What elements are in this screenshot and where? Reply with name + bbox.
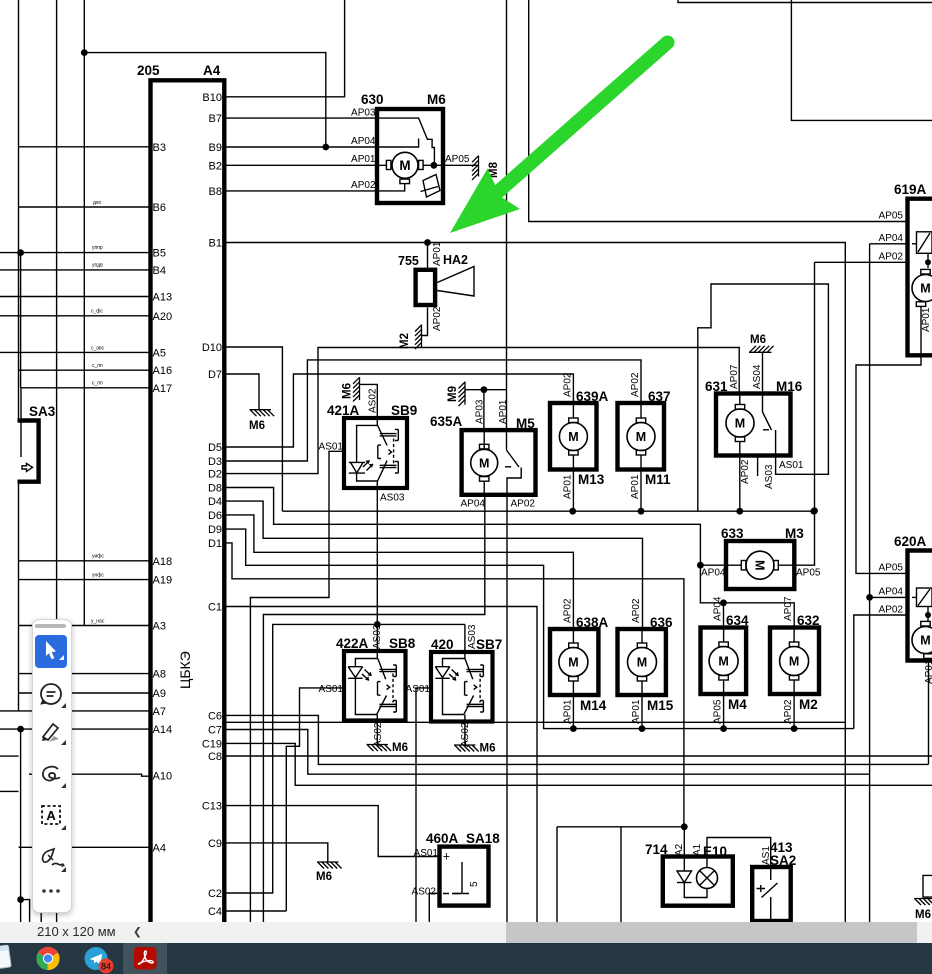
svg-text:AP01: AP01 <box>921 307 932 332</box>
svg-text:AP04: AP04 <box>879 233 904 244</box>
wire M2 AP02 <box>793 694 795 729</box>
svg-text:D3: D3 <box>208 456 222 468</box>
heater unit 620A <box>908 548 932 662</box>
svg-text:AP07: AP07 <box>783 596 794 621</box>
switch inside M5 <box>507 450 520 467</box>
ground M6 (C9) <box>317 862 342 869</box>
node 620A AP04 <box>866 594 873 601</box>
svg-text:AS04: AS04 <box>752 364 763 389</box>
wire D9 to lower bus <box>224 529 854 729</box>
highlight tool <box>42 724 59 742</box>
wire 619A motor out to 620A AP05 <box>856 306 921 573</box>
svg-text:AP02: AP02 <box>563 598 574 623</box>
node A14 <box>17 726 24 733</box>
svg-text:C7: C7 <box>208 725 222 737</box>
svg-text:A4: A4 <box>203 63 221 78</box>
wire SA3 bottom down <box>18 484 20 711</box>
wire D7 to ground <box>224 374 259 410</box>
switch inside M16 <box>763 394 772 431</box>
svg-text:A2: A2 <box>674 843 685 856</box>
draw tool <box>42 766 59 780</box>
wire M16 AP02 to bus1 <box>739 456 741 512</box>
motor M14 (638A) <box>550 629 598 695</box>
svg-text:205: 205 <box>137 63 160 78</box>
rocker contacts inside SB9 <box>376 418 378 488</box>
svg-text:M6: M6 <box>392 742 408 754</box>
chrome icon <box>36 947 59 970</box>
node AP05 <box>431 162 438 169</box>
svg-text:AS02: AS02 <box>373 722 384 747</box>
telegram icon <box>85 947 108 970</box>
motor unit M16 (631) wiper motor <box>716 394 791 456</box>
wire B6 <box>19 206 151 208</box>
svg-text:633: 633 <box>721 526 744 541</box>
svg-text:с_пп: с_пп <box>92 363 103 369</box>
svg-text:AP02: AP02 <box>631 598 642 623</box>
svg-text:5: 5 <box>469 881 480 887</box>
wire 620A AP01 to C6 bus <box>928 661 930 765</box>
svg-text:D5: D5 <box>208 442 222 454</box>
svg-text:M14: M14 <box>580 698 607 713</box>
svg-text:HA2: HA2 <box>443 253 468 267</box>
svg-text:C13: C13 <box>202 801 222 813</box>
wire C19 <box>224 743 932 785</box>
wire M14 AP01 <box>572 695 574 729</box>
wire stub left 791 <box>0 790 19 792</box>
wire top right corner <box>678 0 932 3</box>
more dots <box>42 889 60 893</box>
svg-text:C6: C6 <box>208 710 222 722</box>
svg-text:упдв: упдв <box>92 263 103 269</box>
svg-text:M5: M5 <box>516 416 535 431</box>
wire A5 <box>0 351 151 353</box>
wire 619A AP02 <box>815 261 908 263</box>
svg-text:A7: A7 <box>153 706 166 718</box>
svg-text:M6: M6 <box>316 871 332 883</box>
svg-text:AP02: AP02 <box>879 252 904 263</box>
svg-text:AS01: AS01 <box>319 684 344 695</box>
wire SB8 AS03 <box>376 624 378 651</box>
svg-text:M2: M2 <box>399 333 411 349</box>
wire M16 AS03 stub <box>757 456 759 477</box>
svg-text:B2: B2 <box>209 160 222 172</box>
wire A8 <box>19 673 151 675</box>
wire A9 <box>19 692 151 694</box>
svg-text:AP04: AP04 <box>713 596 724 621</box>
ground M6 (above M16) <box>749 346 774 353</box>
wire feed 619A AP05 <box>529 0 908 222</box>
wire AP02 inside 630 <box>377 184 405 191</box>
wire SB9 AS02 <box>360 384 378 418</box>
svg-text:AS03: AS03 <box>764 464 775 489</box>
svg-text:B7: B7 <box>209 113 222 125</box>
svg-text:AS01: AS01 <box>406 684 431 695</box>
switch SA3 <box>18 421 39 482</box>
LED inside SB7 <box>435 667 449 679</box>
svg-text:M13: M13 <box>578 472 605 487</box>
svg-text:D9: D9 <box>208 524 222 536</box>
svg-text:B1: B1 <box>209 238 222 250</box>
node M15 AP01 <box>639 725 646 732</box>
wire 619A AP04 <box>870 243 908 245</box>
svg-text:M4: M4 <box>728 697 747 712</box>
wire C1 <box>224 607 537 923</box>
left bus wire x=84.3 <box>83 0 85 626</box>
wire M5 AP03 <box>483 390 485 430</box>
svg-text:M6: M6 <box>480 743 496 755</box>
svg-text:M6: M6 <box>342 383 354 399</box>
svg-text:C2: C2 <box>208 888 222 900</box>
wire M4 AP05 <box>723 694 725 729</box>
wire SB9 AS03 down <box>376 488 378 624</box>
LED inside SB9 <box>349 462 365 473</box>
wire M3 AP04 <box>700 564 726 566</box>
svg-text:632: 632 <box>797 613 820 628</box>
svg-text:C19: C19 <box>202 738 222 750</box>
svg-text:B3: B3 <box>153 142 166 154</box>
switch SB8 (422A) <box>344 651 406 721</box>
svg-text:AP05: AP05 <box>713 699 724 724</box>
wire A16 <box>19 369 151 371</box>
wire D8 to bus2 <box>224 488 700 566</box>
svg-text:SA18: SA18 <box>466 831 500 846</box>
svg-text:M: M <box>920 282 930 296</box>
left bus wire x=18.5 <box>18 0 20 421</box>
svg-text:D8: D8 <box>208 483 222 495</box>
wire SB9 AS01 <box>250 451 344 922</box>
node M9 wire <box>481 386 488 393</box>
wire C9 to ground <box>224 843 327 862</box>
wire M13 AP01 to bus1 <box>572 470 574 512</box>
svg-text:M: M <box>568 430 578 444</box>
svg-text:AP01: AP01 <box>563 474 574 499</box>
wire A4 <box>19 846 151 848</box>
svg-text:дхо: дхо <box>93 200 101 206</box>
svg-text:M6: M6 <box>750 334 766 346</box>
wire A13 <box>0 296 151 298</box>
wire B10 <box>224 0 344 97</box>
node bus1 M11 <box>638 508 645 515</box>
select tool active <box>35 635 67 668</box>
svg-text:с_фс: с_фс <box>91 309 103 315</box>
svg-text:422A: 422A <box>336 636 369 651</box>
wire M3 AP05 to 619A AP02 net <box>794 262 814 565</box>
wire bottom stub x41 <box>40 908 42 922</box>
wire A10 <box>29 774 151 776</box>
wire M5 AP02 down <box>506 495 508 922</box>
pin labels left side <box>153 142 173 855</box>
svg-text:AS1: AS1 <box>761 846 772 865</box>
svg-text:M: M <box>718 655 728 669</box>
svg-text:AP05: AP05 <box>879 563 904 574</box>
wire stub left 756 <box>0 755 19 757</box>
wire M11 AP01 to bus1 <box>640 470 642 512</box>
svg-text:SB7: SB7 <box>476 637 502 652</box>
wire to 634/632 <box>700 565 794 627</box>
wire B5 <box>0 252 151 254</box>
wire SA18 AS02 <box>429 893 439 922</box>
svg-text:AP02: AP02 <box>740 459 751 484</box>
acrobat icon <box>134 947 157 970</box>
motor M15 (636) <box>618 629 666 695</box>
svg-text:AP02: AP02 <box>783 699 794 724</box>
svg-text:D1: D1 <box>208 538 222 550</box>
svg-text:619A: 619A <box>894 182 927 197</box>
ground M2 <box>415 325 422 350</box>
wire C13 to SA18 <box>224 806 439 857</box>
svg-text:755: 755 <box>398 254 419 268</box>
svg-text:M6: M6 <box>427 92 446 107</box>
node M2 AP02 <box>791 725 798 732</box>
green arrow annotation <box>450 43 668 234</box>
motor M3 (633) <box>726 541 794 589</box>
svg-text:C9: C9 <box>208 838 222 850</box>
fuse inside 619A <box>917 232 932 254</box>
svg-text:M: M <box>479 456 489 470</box>
switch SB7 (420) <box>431 652 493 722</box>
wire AP04 net vertical <box>869 244 871 922</box>
svg-text:630: 630 <box>361 92 384 107</box>
wire D6 to 638A AP02 <box>224 515 573 629</box>
svg-text:M: M <box>637 656 647 670</box>
svg-text:AS01: AS01 <box>414 848 439 859</box>
svg-text:с_пп: с_пп <box>92 381 103 387</box>
wire long 722 <box>224 721 845 723</box>
node SB8 AS03 <box>374 621 381 628</box>
svg-text:AP03: AP03 <box>475 399 486 424</box>
svg-text:AP07: AP07 <box>729 364 740 389</box>
wire left vertical lower <box>20 729 22 922</box>
svg-text:AP01: AP01 <box>563 699 574 724</box>
svg-text:A1: A1 <box>692 843 703 856</box>
wire B1 <box>224 243 845 923</box>
svg-text:у_нас: у_нас <box>91 619 105 625</box>
ground M6 (D7) <box>250 410 275 417</box>
wire C8 <box>224 755 932 757</box>
wire C2 to AS03 net <box>224 624 465 893</box>
ground M6 (SB7) <box>454 745 479 752</box>
left bus wire x=56.6 <box>56 0 58 922</box>
ground M9 <box>459 382 466 407</box>
wire M5 AP04 down-left <box>263 495 484 922</box>
rocker contacts inside SB7 <box>464 652 466 722</box>
partial icon left <box>0 945 11 969</box>
ground M6 (above SB9, rotated) <box>353 377 360 402</box>
sign tool <box>42 849 64 867</box>
wire B5-A17 vertical <box>20 253 22 388</box>
wire A20 <box>0 315 151 317</box>
motor inside 620A <box>925 612 931 618</box>
svg-text:A18: A18 <box>153 556 173 568</box>
wire A7 <box>0 710 151 712</box>
heater unit 619A <box>908 197 932 358</box>
svg-text:AS02: AS02 <box>368 388 379 413</box>
svg-text:A9: A9 <box>153 688 166 700</box>
wire C4 <box>224 910 286 912</box>
svg-text:SB9: SB9 <box>391 403 417 418</box>
pin labels right side <box>202 92 222 918</box>
svg-text:AS01: AS01 <box>779 460 804 471</box>
svg-text:A: A <box>46 808 56 823</box>
ground M8 <box>472 156 479 180</box>
svg-text:D2: D2 <box>208 469 222 481</box>
svg-text:A14: A14 <box>153 724 173 736</box>
wire D2 to M16 AP07 <box>224 348 739 474</box>
svg-text:AS03: AS03 <box>467 624 478 649</box>
svg-text:D10: D10 <box>202 342 222 354</box>
svg-text:A5: A5 <box>153 347 166 359</box>
motor unit M5 (635A) <box>462 430 536 495</box>
svg-text:C8: C8 <box>208 751 222 763</box>
toolbar panel <box>32 619 73 913</box>
wire D1 to E10 <box>224 543 684 827</box>
wire A17 <box>21 387 151 389</box>
svg-text:M11: M11 <box>645 472 671 487</box>
wire E10 A1 to SA2 <box>707 838 771 868</box>
svg-text:AP02: AP02 <box>511 499 536 510</box>
svg-text:AP05: AP05 <box>796 568 821 579</box>
wire A19 <box>19 579 151 581</box>
lamp inside E10 <box>697 868 718 889</box>
svg-text:C1: C1 <box>208 602 222 614</box>
svg-text:D4: D4 <box>208 496 222 508</box>
wire A3 <box>19 625 151 627</box>
svg-text:D7: D7 <box>208 369 222 381</box>
svg-text:A19: A19 <box>153 575 173 587</box>
svg-text:A8: A8 <box>153 669 166 681</box>
svg-text:637: 637 <box>648 389 671 404</box>
switch SA2 (413) <box>752 867 791 921</box>
wire D10 to bus1 <box>224 347 282 511</box>
svg-text:M: M <box>735 417 745 431</box>
motor unit M6 (630) washer motor box <box>377 109 443 203</box>
wire SB8 AS01 to C4 net <box>286 688 344 911</box>
svg-text:A10: A10 <box>153 771 173 783</box>
motor M2 (632) <box>770 628 819 695</box>
svg-text:ЦБКЭ: ЦБКЭ <box>177 651 193 689</box>
svg-text:C4: C4 <box>208 906 222 918</box>
svg-text:M9: M9 <box>447 386 459 402</box>
svg-text:D6: D6 <box>208 510 222 522</box>
node B5 <box>17 249 24 256</box>
fuse inside 620A <box>917 588 932 607</box>
wire M9 to M5 pins <box>465 389 507 391</box>
wire SB7 AS02 to ground <box>464 722 466 745</box>
comment tool <box>41 684 61 704</box>
node M3 AP04 <box>697 562 704 569</box>
wire top right box corner <box>791 0 932 120</box>
svg-text:M: M <box>568 656 578 670</box>
svg-text:A20: A20 <box>153 311 173 323</box>
svg-text:M2: M2 <box>799 697 818 712</box>
svg-text:AP05: AP05 <box>879 211 904 222</box>
wire SB7 AS03 <box>464 624 466 652</box>
wire SB7 AS01 down <box>416 688 431 922</box>
svg-text:M: M <box>752 560 766 570</box>
wire SB8 AS02 to ground <box>376 721 378 745</box>
wire M16 AS04 <box>762 352 764 393</box>
motor M11 (637) <box>618 403 665 470</box>
node bus1 M13 <box>569 508 576 515</box>
svg-text:A3: A3 <box>153 621 166 633</box>
motor M in 630 <box>392 152 418 178</box>
node bottom left <box>17 896 24 903</box>
svg-text:AP02: AP02 <box>630 372 641 397</box>
wire long vertical to M5 AP01 <box>506 0 508 450</box>
motor M4 (634) <box>701 628 747 695</box>
wire D5 to 639A AP02 <box>224 374 573 447</box>
wire C7 <box>224 730 869 775</box>
svg-text:SA2: SA2 <box>770 853 796 868</box>
node B1/HA2 <box>424 239 431 246</box>
svg-text:AP01: AP01 <box>432 241 443 266</box>
svg-text:AS03: AS03 <box>380 493 405 504</box>
wire A14 <box>0 728 151 730</box>
wire bottom left step <box>21 900 30 922</box>
svg-text:AP02: AP02 <box>432 306 443 331</box>
svg-text:AP04: AP04 <box>351 136 376 147</box>
node net 619A AP02 bus1 <box>811 507 818 514</box>
svg-text:AP03: AP03 <box>351 108 376 119</box>
svg-text:с_авс: с_авс <box>91 346 105 352</box>
svg-text:634: 634 <box>726 613 749 628</box>
wire B9 to AP04 <box>224 146 377 148</box>
node B9 junction <box>322 144 329 151</box>
svg-text:639A: 639A <box>576 389 609 404</box>
wire A17 to SA3 <box>20 388 22 457</box>
component stub bottom right <box>923 875 932 897</box>
svg-text:уппр: уппр <box>92 245 103 251</box>
svg-text:714: 714 <box>645 842 668 857</box>
svg-text:620A: 620A <box>894 534 927 549</box>
svg-text:M: M <box>636 430 646 444</box>
relay contact inside 630 <box>377 118 428 139</box>
node M4 AP05 <box>720 725 727 732</box>
switch SA18 (460A) <box>440 847 489 906</box>
svg-text:AP01: AP01 <box>498 399 509 424</box>
motor M13 (639A) <box>550 403 597 470</box>
svg-text:M16: M16 <box>776 379 803 394</box>
svg-text:AP01: AP01 <box>631 699 642 724</box>
svg-text:M6: M6 <box>915 909 931 921</box>
svg-text:SA3: SA3 <box>29 404 56 419</box>
svg-text:уифс: уифс <box>92 554 104 560</box>
svg-text:SB8: SB8 <box>389 636 416 651</box>
node M14 AP01 <box>570 725 577 732</box>
wire top horizontal to B9 net <box>84 53 325 147</box>
svg-text:420: 420 <box>431 637 454 652</box>
svg-text:M3: M3 <box>785 526 804 541</box>
switch SB9 (421A) <box>344 418 407 488</box>
wire B7 to AP03 <box>224 117 377 119</box>
svg-text:421A: 421A <box>327 403 360 418</box>
wire C6 <box>224 715 928 764</box>
svg-text:AS02: AS02 <box>412 887 437 898</box>
svg-text:унфс: унфс <box>92 573 104 579</box>
svg-text:M: M <box>399 158 410 173</box>
svg-text:AP02: AP02 <box>879 605 904 616</box>
wire B3 <box>19 146 151 148</box>
svg-text:638A: 638A <box>576 615 609 630</box>
wire M16 AS01 loop <box>698 284 829 511</box>
svg-text:460A: 460A <box>426 831 459 846</box>
LED inside SB8 <box>348 667 362 679</box>
wire M15 AP01 <box>641 695 643 729</box>
svg-text:B4: B4 <box>153 265 166 277</box>
svg-text:84: 84 <box>101 962 111 972</box>
diode inside E10 <box>683 827 685 871</box>
svg-text:AP02: AP02 <box>351 180 376 191</box>
